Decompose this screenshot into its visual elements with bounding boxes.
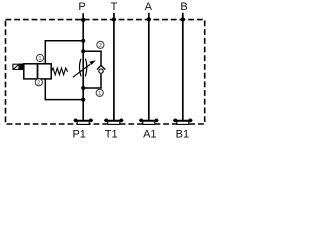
svg-text:1: 1 xyxy=(38,56,41,62)
wire A vertical line xyxy=(148,13,150,121)
junction dot P at enclosure top xyxy=(81,18,85,22)
junction dot check branch bottom xyxy=(81,86,85,90)
svg-text:2: 2 xyxy=(37,80,40,86)
spring xyxy=(51,68,67,75)
svg-text:P: P xyxy=(78,1,85,13)
node label 2 at valve bottom xyxy=(35,79,42,87)
node label 2 at check valve top xyxy=(97,41,104,49)
svg-text:T1: T1 xyxy=(105,129,118,140)
bottom port A1 symbol xyxy=(139,119,158,125)
check valve ball xyxy=(99,69,103,73)
wire P vertical line xyxy=(82,13,84,120)
svg-text:1: 1 xyxy=(98,91,101,97)
junction dot T at enclosure top xyxy=(112,17,116,21)
svg-text:T: T xyxy=(111,1,118,13)
manifold dashed enclosure xyxy=(6,20,205,124)
throttle valve arcs xyxy=(79,59,81,77)
node label 1 at check valve bottom xyxy=(96,89,103,97)
svg-text:A: A xyxy=(145,1,153,13)
wire branch to check valve top xyxy=(83,51,101,65)
wire T vertical line xyxy=(113,13,115,121)
svg-text:P1: P1 xyxy=(72,129,85,140)
svg-text:B1: B1 xyxy=(176,129,189,140)
junction dot lower return xyxy=(81,98,85,102)
bottom port B1 symbol xyxy=(173,119,192,125)
junction dot check branch top xyxy=(81,49,85,53)
valve 2/2 body right box xyxy=(38,64,52,79)
svg-text:2: 2 xyxy=(99,43,102,49)
valve 2/2 body left box xyxy=(24,64,38,79)
svg-text:B: B xyxy=(180,1,187,13)
node label 1 at valve top xyxy=(36,54,43,62)
junction dot B at enclosure top xyxy=(181,17,185,21)
solenoid actuator xyxy=(13,64,24,69)
bottom port T1 symbol xyxy=(104,119,123,125)
wire B vertical line xyxy=(182,13,184,121)
throttle adjustment arrow xyxy=(73,64,90,77)
wire valve port 2 return xyxy=(45,79,83,100)
svg-text:A1: A1 xyxy=(143,129,156,140)
bottom port P1 symbol xyxy=(74,119,93,125)
check valve seat xyxy=(97,65,105,69)
wire check valve bottom xyxy=(83,74,101,88)
wire branch to valve port 1 xyxy=(45,41,83,64)
junction dot branch P upper xyxy=(81,39,85,43)
junction dot A at enclosure top xyxy=(147,17,151,21)
